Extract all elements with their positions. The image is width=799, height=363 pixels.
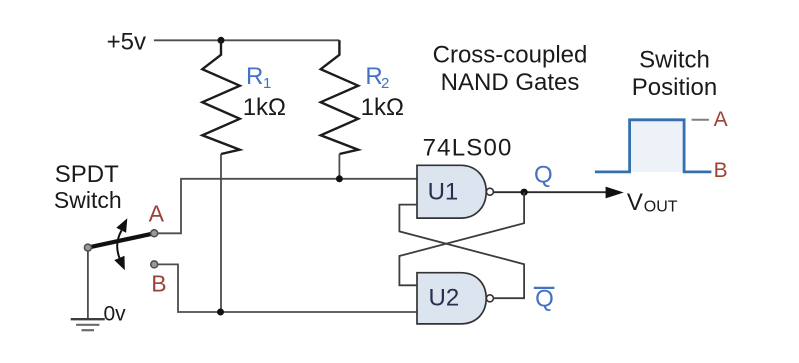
junction node A / R2 (336, 175, 343, 182)
svg-text:OUT: OUT (644, 198, 678, 215)
svg-text:Switch: Switch (54, 187, 122, 213)
wire node B: switch contact B down and right to U2 input (158, 264, 417, 312)
Vout arrowhead (606, 187, 624, 199)
label +5v (107, 28, 146, 55)
wire pole to ground (87, 251, 89, 319)
label 0v (104, 303, 127, 326)
label R1 value 1kOhm (243, 94, 286, 121)
svg-text:U2: U2 (429, 285, 460, 312)
label R1 (246, 63, 271, 92)
switch contact A terminal (151, 230, 158, 237)
wire R1 to node B rail (220, 154, 222, 312)
switch pole terminal (84, 244, 91, 251)
ground (71, 319, 105, 330)
svg-text:1kΩ: 1kΩ (361, 94, 404, 121)
wire U1 output to Vout arrow (493, 191, 606, 193)
svg-text:B: B (151, 271, 166, 297)
resistor R2 (321, 40, 359, 154)
label 74LS00 (423, 135, 513, 162)
switch toggle arrows (114, 218, 127, 270)
svg-text:U1: U1 (428, 179, 459, 206)
resistor R1 (202, 40, 240, 154)
wire node A: switch contact A up and right to U1 input (158, 179, 417, 234)
svg-text:V: V (627, 189, 643, 216)
label waveform A (714, 108, 728, 131)
svg-text:NAND Gates: NAND Gates (441, 69, 580, 96)
label SPDT Switch (54, 161, 122, 213)
label A switch contact (149, 201, 165, 227)
switch position waveform trace (595, 120, 712, 172)
svg-text:2: 2 (381, 75, 389, 92)
label Q (534, 161, 553, 188)
wire feedback Qbar to U1 bottom input (399, 205, 524, 299)
label U1 (428, 179, 459, 206)
svg-text:Cross-coupled: Cross-coupled (433, 42, 588, 69)
wire +5v rail (154, 39, 340, 41)
nand gate U1 (417, 165, 486, 218)
label Switch Position (632, 47, 717, 102)
label waveform B (714, 159, 728, 182)
junction node B / R1 (217, 309, 224, 316)
svg-text:1: 1 (263, 75, 271, 92)
svg-text:74LS00: 74LS00 (423, 135, 513, 162)
svg-text:+5v: +5v (107, 28, 146, 55)
label R2 (365, 63, 389, 92)
junction Q (521, 189, 528, 196)
svg-text:A: A (714, 108, 728, 131)
svg-text:B: B (714, 159, 728, 182)
svg-text:0v: 0v (104, 303, 127, 326)
label R2 value 1kOhm (361, 94, 404, 121)
svg-text:Q: Q (535, 285, 554, 312)
nand gate U2 (417, 273, 486, 324)
svg-text:SPDT: SPDT (55, 161, 119, 188)
label B switch contact (151, 271, 166, 297)
U1 inverter bubble (486, 188, 493, 195)
switch lever (88, 233, 154, 247)
svg-text:R: R (246, 63, 263, 90)
svg-text:Switch: Switch (639, 47, 710, 74)
label Cross-coupled NAND Gates (433, 42, 588, 97)
wire feedback Q to U2 top input (399, 192, 524, 285)
junction +5v/R1 (218, 37, 225, 44)
switch contact B terminal (151, 261, 158, 268)
svg-text:Q: Q (534, 161, 553, 188)
label Vout (627, 189, 678, 216)
U2 inverter bubble (486, 295, 493, 302)
switch position waveform pulse fill (630, 120, 685, 172)
svg-text:A: A (149, 201, 165, 227)
wire R2 to node A rail (338, 154, 340, 179)
svg-text:Position: Position (632, 74, 717, 101)
svg-text:1kΩ: 1kΩ (243, 94, 286, 121)
label U2 (429, 285, 460, 312)
label Qbar (534, 285, 555, 312)
waveform level A tick (692, 119, 709, 121)
